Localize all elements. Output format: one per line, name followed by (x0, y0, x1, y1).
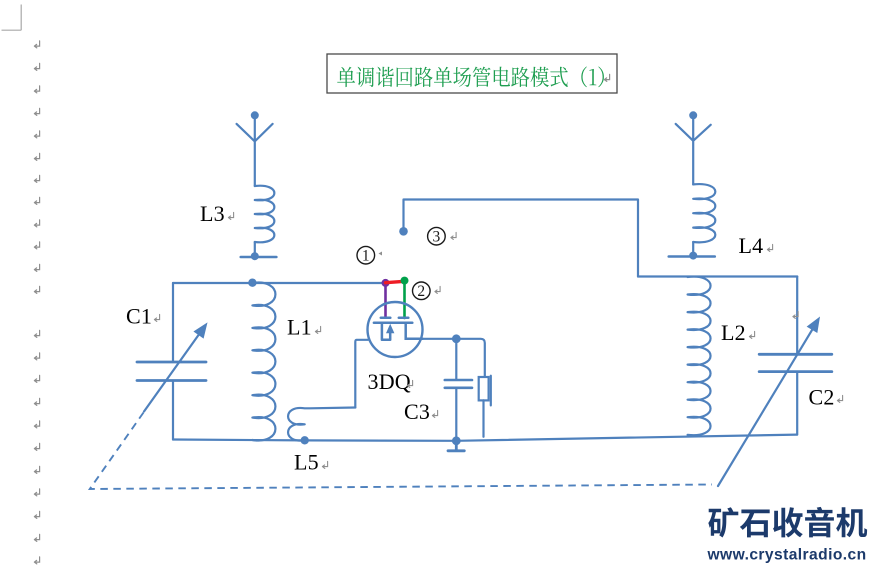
inductor L4 (693, 184, 715, 242)
return mark after circle 3 (451, 232, 456, 239)
svg-text:2: 2 (417, 283, 425, 300)
svg-text:C1: C1 (126, 303, 152, 328)
circled number 2 (413, 282, 431, 300)
capacitor C2 plates (759, 354, 832, 371)
capacitor C3 plates (445, 380, 472, 388)
wire drain node to resistor top (456, 339, 485, 377)
wire gate2 bias line node 3 (404, 200, 639, 277)
inductor L2 (688, 277, 711, 436)
wire L4 bottom lead (692, 242, 694, 254)
page corner boundary mark (2, 5, 22, 31)
svg-text:3: 3 (433, 228, 441, 245)
node junction dot L5 bottom (301, 436, 309, 444)
node 1 purple dot (382, 279, 390, 287)
ground symbol (448, 441, 464, 451)
svg-text:3DQ: 3DQ (368, 369, 411, 394)
svg-text:1: 1 (362, 247, 370, 264)
svg-text:L1: L1 (287, 315, 312, 340)
return mark near C2 lead (793, 311, 798, 318)
node 2 green dot (401, 277, 409, 285)
dashed gang coupling line (90, 413, 712, 490)
node junction dot L1 top (248, 279, 256, 287)
svg-text:C3: C3 (404, 399, 430, 424)
capacitor C3 upper lead (455, 339, 457, 379)
svg-text:L3: L3 (200, 201, 225, 226)
circled number 3 (428, 227, 446, 245)
inductor L1 (252, 282, 275, 440)
gate lead G2 green (403, 281, 406, 318)
antenna ANT2 top dot (689, 111, 697, 119)
return mark after circle 2 (435, 286, 440, 293)
resistor lower lead (482, 400, 484, 436)
transistor 3DQ dual-gate MOSFET (368, 302, 423, 357)
title frame box (327, 54, 617, 93)
capacitor C2 upper lead (796, 277, 798, 354)
svg-text:L2: L2 (721, 320, 746, 345)
watermark logo 矿石收音机 (708, 507, 867, 538)
gate lead G1 purple (384, 283, 387, 318)
inductor L3 (255, 186, 275, 243)
wire FET source to L5 tap (355, 340, 368, 408)
capacitor C1 lower lead (172, 382, 174, 440)
terminal bar below L3 (241, 256, 277, 259)
title text 单调谐回路单场管电路模式（1） (337, 67, 604, 88)
svg-text:C2: C2 (809, 384, 835, 409)
svg-text:L4: L4 (739, 233, 764, 258)
inductor L5 tap winding (288, 408, 355, 441)
antenna ANT2 mast and arms (676, 115, 711, 184)
resistor R body (479, 377, 489, 400)
antenna ANT1 mast and arms (237, 115, 273, 186)
antenna ANT1 top dot (251, 111, 259, 119)
circled number 1 (357, 246, 375, 264)
anchor mark near circle 1 (379, 252, 383, 256)
paragraph return marks column (34, 41, 39, 564)
node drain junction dot (452, 334, 461, 343)
node ground junction dot (452, 436, 461, 445)
capacitor C2 variable arrow (718, 319, 819, 486)
capacitor C1 upper lead (172, 283, 174, 361)
terminal bar below L4 (669, 255, 715, 258)
capacitor C1 plates (137, 362, 206, 381)
svg-text:L5: L5 (294, 450, 319, 475)
title return mark (604, 74, 609, 81)
svg-text:www.crystalradio.cn: www.crystalradio.cn (707, 547, 867, 564)
wire top rail right tank (638, 275, 797, 277)
red link between gate nodes (386, 281, 405, 282)
node L3 bottom terminal dot (251, 252, 259, 260)
capacitor C3 lower lead (455, 389, 457, 441)
node 3 stub dot (399, 227, 408, 236)
node L4 bottom terminal dot (689, 252, 697, 260)
wire L3 bottom lead (254, 242, 256, 254)
capacitor C1 variable arrow (144, 325, 206, 412)
capacitor C2 lower lead (796, 373, 798, 435)
wire FET drain to node (423, 338, 457, 340)
wire bottom rail (173, 435, 797, 441)
wire top rail left tank (173, 282, 384, 284)
